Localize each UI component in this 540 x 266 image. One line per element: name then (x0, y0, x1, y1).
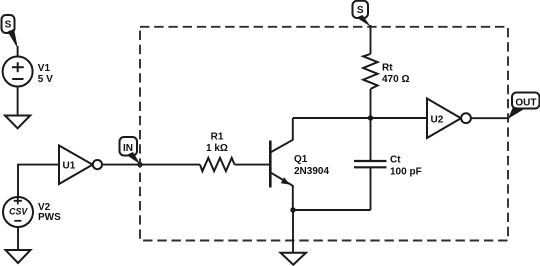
svg-text:OUT: OUT (515, 97, 536, 108)
svg-text:IN: IN (123, 143, 133, 154)
svg-text:5 V: 5 V (38, 74, 53, 85)
capacitor Ct (354, 155, 422, 178)
svg-text:R1: R1 (211, 132, 224, 143)
inverter U2 (427, 99, 471, 139)
ground (under V2) (6, 250, 31, 263)
node S (top-center) (353, 1, 371, 27)
svg-text:V1: V1 (38, 63, 51, 74)
node OUT (508, 93, 540, 119)
svg-text:S: S (357, 5, 364, 16)
wire S to V1 (17, 46, 19, 57)
wire V2 to U1 input (18, 165, 59, 197)
voltage source V2 (3, 197, 61, 227)
wire S to Rt (370, 25, 372, 54)
wire U1 to R1 (102, 164, 200, 166)
svg-text:U2: U2 (431, 115, 444, 126)
wire collector node to Ct (370, 118, 372, 161)
wire Ct to emitter rail (370, 167, 372, 210)
svg-text:Rt: Rt (382, 63, 393, 74)
svg-text:Ct: Ct (390, 155, 401, 166)
wire emitter node to ground (292, 210, 294, 253)
transistor Q1 (270, 118, 329, 210)
svg-text:Q1: Q1 (294, 154, 308, 165)
svg-text:1 kΩ: 1 kΩ (206, 143, 228, 154)
dashed subcircuit box (140, 27, 508, 241)
wire V2 to ground (17, 227, 19, 250)
wire V1 to ground (17, 87, 19, 116)
junction dot (collector node) (368, 115, 373, 120)
wire R1 to Q1 base (235, 164, 270, 166)
wire collector node to U2 (371, 117, 428, 119)
svg-text:S: S (5, 20, 12, 31)
resistor R1 (200, 132, 235, 172)
wire U2 to OUT (471, 117, 509, 119)
svg-text:U1: U1 (63, 160, 76, 171)
wire emitter node to Ct bottom (293, 209, 371, 211)
voltage source V1 (3, 57, 54, 87)
svg-text:PWS: PWS (38, 212, 61, 223)
svg-text:2N3904: 2N3904 (294, 166, 329, 177)
node S (top-left) (2, 15, 18, 49)
wire collector to top node (293, 117, 371, 119)
inverter U1 (59, 146, 102, 185)
junction dot (emitter node) (290, 207, 295, 212)
resistor Rt (363, 54, 409, 89)
junction dot at IN (137, 162, 142, 167)
svg-text:100 pF: 100 pF (390, 167, 422, 178)
node IN (120, 137, 141, 164)
ground (under V1) (5, 116, 30, 129)
wire Rt to collector node (370, 89, 372, 118)
svg-text:CSV: CSV (9, 207, 28, 217)
svg-text:470 Ω: 470 Ω (382, 74, 409, 85)
ground (under Q1 emitter) (281, 253, 307, 265)
